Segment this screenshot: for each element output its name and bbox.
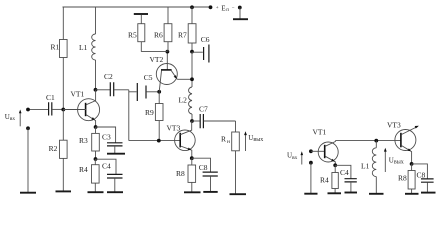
transistor VT3	[167, 121, 196, 158]
svg-text:L1: L1	[79, 43, 88, 52]
svg-text:R8: R8	[398, 173, 407, 182]
svg-text:VT1: VT1	[313, 127, 327, 136]
node R9 VT3 base junction	[157, 139, 161, 143]
ground C3	[107, 153, 125, 155]
wire input ground (equivalent circuit)	[310, 163, 312, 194]
svg-text:−: −	[232, 6, 235, 11]
capacitor C6	[192, 35, 210, 63]
ground C8 (equivalent circuit)	[421, 192, 436, 194]
ground supply	[233, 8, 248, 20]
node L1 junction (equivalent circuit)	[374, 139, 378, 143]
svg-text:C4: C4	[340, 168, 349, 177]
wire VT3 base	[129, 140, 180, 142]
svg-text:R4: R4	[79, 165, 88, 174]
wire input base (equivalent circuit)	[311, 150, 325, 152]
ground above R5	[134, 14, 148, 24]
svg-text:C2: C2	[104, 72, 113, 81]
svg-text:R9: R9	[145, 108, 154, 117]
ground L1 (equivalent circuit)	[369, 193, 384, 195]
resistor R2	[49, 110, 68, 192]
resistor R3	[79, 127, 99, 159]
svg-text:+: +	[216, 6, 219, 11]
svg-text:R4: R4	[320, 175, 329, 184]
capacitor C4 (equivalent circuit)	[335, 165, 357, 192]
arrow Uvyh output voltage (equivalent circuit)	[384, 148, 404, 172]
capacitor C8	[192, 158, 218, 191]
node input terminal bottom	[26, 126, 30, 130]
ground R2	[56, 190, 72, 192]
resistor R4 (equivalent circuit)	[320, 165, 338, 193]
ground R8 (equivalent circuit)	[405, 193, 419, 195]
transistor VT1	[71, 89, 100, 127]
resistor R7	[178, 7, 196, 52]
ground C4 (equivalent circuit)	[345, 192, 358, 194]
capacitor C4	[102, 162, 123, 192]
transistor VT1 (equivalent circuit)	[313, 127, 339, 165]
wire supply rail	[63, 6, 211, 8]
svg-text:C6: C6	[201, 35, 210, 44]
label +Ep- supply	[216, 4, 235, 13]
ground R4	[88, 191, 104, 193]
capacitor C5	[129, 73, 159, 101]
svg-text:R6: R6	[154, 30, 163, 39]
node R7 C6 junction	[190, 50, 194, 54]
svg-text:C8: C8	[417, 170, 426, 179]
svg-text:вых: вых	[394, 160, 404, 166]
node C1 R1 R2 junction	[61, 108, 65, 112]
node input terminal top (equivalent circuit)	[309, 149, 313, 153]
resistor R9	[145, 92, 163, 141]
svg-text:R2: R2	[49, 144, 58, 153]
ground Rn	[230, 193, 247, 195]
resistor R4	[79, 159, 99, 192]
capacitor C2	[96, 72, 129, 96]
resistor Rn load	[221, 121, 239, 194]
capacitor C8 (equivalent circuit)	[412, 164, 434, 192]
ground input	[20, 192, 36, 194]
node VT1 collector junction	[94, 88, 98, 92]
svg-text:C8: C8	[199, 163, 208, 172]
svg-text:VT3: VT3	[387, 120, 401, 129]
inductor L1	[79, 7, 96, 90]
svg-text:п: п	[226, 8, 229, 13]
ground R4 (equivalent circuit)	[328, 192, 342, 194]
resistor R8	[176, 158, 196, 192]
resistor R6	[154, 7, 172, 52]
node supply negative terminal	[238, 6, 242, 10]
svg-text:R5: R5	[128, 30, 137, 39]
ground R8	[184, 191, 201, 193]
svg-text:вх: вх	[292, 155, 298, 161]
node C5 R9 VT2 junction	[157, 90, 161, 94]
svg-text:VT3: VT3	[167, 124, 181, 133]
capacitor C7	[192, 104, 236, 128]
ground C8	[203, 191, 217, 193]
capacitor C3	[96, 127, 123, 153]
ground input (equivalent circuit)	[304, 193, 317, 195]
inductor L1 (equivalent circuit)	[361, 141, 376, 194]
svg-text:L1: L1	[361, 161, 370, 170]
ground C4	[107, 191, 123, 193]
transistor VT3 (equivalent circuit)	[387, 120, 419, 164]
arrow Uvh input voltage	[5, 110, 22, 127]
svg-text:вых: вых	[253, 137, 263, 143]
svg-text:C7: C7	[199, 104, 208, 113]
svg-text:C3: C3	[102, 132, 111, 141]
node VT1 emitter junction	[94, 125, 98, 129]
wire R5 to bias node	[141, 51, 167, 53]
wire R7 column down	[191, 52, 193, 87]
resistor R5	[128, 24, 145, 52]
arrow Uvyh output voltage	[244, 131, 263, 151]
svg-text:E: E	[221, 4, 225, 12]
svg-text:VT2: VT2	[150, 55, 164, 64]
node L2 VT3 collector C7 junction	[190, 119, 194, 123]
node R3 R4 junction	[94, 157, 98, 161]
transistor VT2	[150, 52, 193, 92]
svg-text:C1: C1	[46, 93, 55, 102]
svg-text:C4: C4	[102, 162, 111, 171]
node VT3 emitter junction	[190, 156, 194, 160]
svg-text:R8: R8	[176, 169, 185, 178]
node input terminal top	[26, 108, 30, 112]
node VT2 emitter L2 junction	[190, 77, 194, 81]
resistor R1	[51, 7, 68, 110]
arrow Uvh input voltage (equivalent circuit)	[287, 151, 303, 164]
node rail R7 junction	[190, 5, 194, 9]
wire input to ground	[27, 128, 29, 192]
node VT2 base bias junction	[166, 50, 170, 54]
inductor L2	[179, 87, 193, 121]
svg-text:C5: C5	[144, 73, 153, 82]
svg-text:R1: R1	[51, 43, 60, 52]
wire VT1 base	[63, 109, 86, 111]
node input terminal bottom (equivalent circuit)	[309, 161, 313, 165]
wire mid node to C4	[96, 159, 117, 174]
svg-text:VT1: VT1	[71, 89, 85, 98]
svg-text:вх: вх	[10, 116, 16, 122]
resistor R8 (equivalent circuit)	[398, 164, 415, 194]
wire collector rail (equivalent circuit)	[335, 140, 400, 142]
node rail end terminal	[209, 5, 213, 9]
svg-text:L2: L2	[179, 95, 188, 104]
svg-text:R: R	[221, 135, 226, 144]
node VT1 emitter (equivalent circuit)	[333, 163, 337, 167]
svg-text:R3: R3	[79, 136, 88, 145]
capacitor C1	[28, 93, 63, 116]
node VT3 emitter (equivalent circuit)	[410, 162, 414, 166]
wire C2 to VT3 base	[128, 90, 130, 141]
svg-text:R7: R7	[178, 30, 187, 39]
svg-text:н: н	[227, 139, 230, 145]
